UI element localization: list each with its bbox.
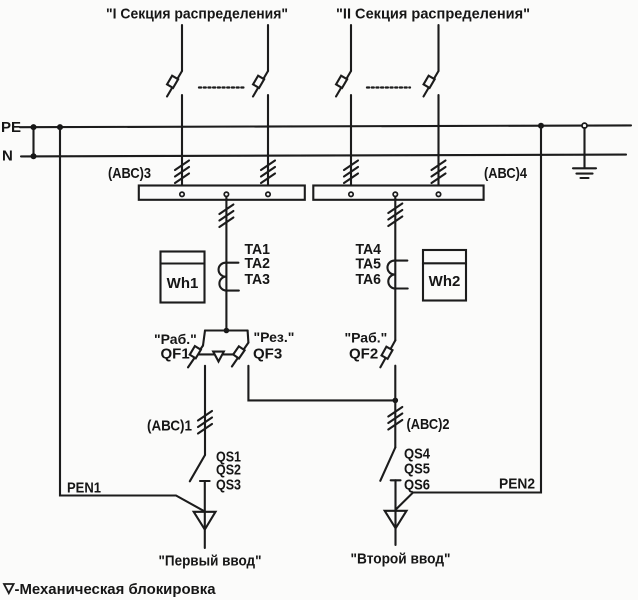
svg-text:TA5: TA5 (356, 256, 382, 273)
svg-text:PEN2: PEN2 (499, 476, 535, 493)
junction PEN2 on PE bus (538, 123, 544, 129)
terminal circle II-2 (393, 192, 397, 196)
svg-text:QF2: QF2 (349, 346, 378, 363)
meter Wh2 divider (423, 262, 466, 264)
svg-text:TA6: TA6 (356, 271, 382, 288)
QF1-QF3 top bar (205, 329, 248, 331)
QF2 lower wire (394, 366, 396, 448)
svg-text:"Рез.": "Рез." (254, 329, 295, 345)
earth wire (583, 128, 585, 168)
mechanical interlock triangle (213, 352, 224, 362)
input 1 arrow (194, 512, 216, 530)
input 2 arrow (385, 511, 407, 529)
feeder switch SW-C blade (336, 71, 351, 97)
input 2 wire (394, 480, 396, 545)
dotted continuation section I (199, 86, 245, 88)
footnote interlock triangle (4, 584, 14, 593)
meter Wh1 box (161, 252, 205, 303)
svg-text:(АВС)4: (АВС)4 (484, 165, 528, 182)
svg-text:TA3: TA3 (245, 271, 271, 288)
svg-text:"Раб.": "Раб." (345, 330, 388, 346)
breaker QF3 box (233, 346, 244, 358)
removable-link hatch B (261, 161, 275, 184)
PEN1 drop wire (60, 127, 205, 511)
disconnector QS1-3 contact bar (200, 480, 210, 482)
dotted continuation section II (367, 86, 410, 88)
right main wire upper (394, 197, 396, 340)
PE-N tie wire (32, 127, 34, 156)
feeder switch SW-A upper wire (181, 25, 183, 71)
terminal circle I-2 (224, 192, 228, 196)
N bus (21, 155, 626, 157)
PE bus (20, 125, 631, 127)
removable-link hatch D (432, 161, 446, 184)
disconnector QS4-6 blade (380, 448, 395, 481)
earth terminal circle on PE bus (582, 123, 587, 128)
junction PE-N tie top (31, 124, 37, 130)
feeder switch SW-C upper wire (350, 25, 352, 71)
breaker QF1 blade (188, 346, 203, 368)
removable-link hatch E (219, 205, 233, 228)
QF1 lower wire (204, 366, 206, 455)
svg-text:Wh2: Wh2 (429, 273, 461, 290)
current transformer TA4-TA6 (387, 261, 407, 289)
current transformer TA1-TA3 (219, 263, 239, 291)
svg-text:Wh1: Wh1 (167, 275, 199, 292)
terminal circle II-3 (436, 192, 440, 196)
feeder switch SW-C lower wire (350, 95, 352, 186)
svg-text:"II Секция распределения": "II Секция распределения" (336, 6, 530, 23)
svg-text:N: N (2, 148, 13, 165)
disconnector QS1-3 blade (190, 455, 205, 481)
ground (573, 168, 596, 178)
svg-text:PEN1: PEN1 (67, 480, 101, 497)
svg-text:QF3: QF3 (253, 346, 282, 363)
busbar section II (313, 186, 483, 200)
junction QF1-QF3 top (224, 328, 230, 334)
breaker QF1 box (190, 346, 201, 358)
PEN2 drop wire (396, 126, 541, 510)
svg-text:"Второй ввод": "Второй ввод" (351, 551, 451, 568)
feeder switch SW-A breaker box (167, 76, 178, 88)
feeder switch SW-D breaker box (424, 76, 435, 88)
QF1-QF3 bottom bar (199, 353, 234, 355)
feeder switch SW-B blade (253, 71, 268, 97)
breaker QF3 blade (232, 343, 249, 367)
removable-link hatch F (388, 204, 402, 227)
busbar section I (139, 186, 305, 200)
removable-link hatch A (175, 161, 189, 184)
terminal circle I-3 (266, 192, 270, 196)
input 1 wire (204, 481, 206, 548)
breaker QF2 blade (380, 340, 395, 367)
feeder switch SW-D blade (424, 71, 439, 97)
svg-text:"I Секция распределения": "I Секция распределения" (106, 6, 288, 23)
QF1-QF3 left edge (203, 331, 205, 346)
feeder switch SW-C breaker box (336, 76, 347, 88)
meter Wh2 box (423, 250, 466, 301)
terminal circle I-1 (180, 192, 184, 196)
meter Wh1 divider (161, 262, 205, 264)
QF1-QF3 right edge (247, 331, 250, 343)
terminal circle II-1 (349, 192, 353, 196)
removable-link hatch C (344, 161, 358, 184)
svg-text:"Первый ввод": "Первый ввод" (159, 553, 262, 570)
svg-text:(АВС)1: (АВС)1 (147, 418, 192, 435)
feeder switch SW-D lower wire (437, 95, 439, 186)
feeder switch SW-B lower wire (267, 95, 269, 186)
feeder switch SW-A blade (167, 71, 182, 97)
junction QF3 to main2 (393, 398, 399, 404)
junction PEN1 on PE bus (57, 124, 63, 130)
svg-text:TA2: TA2 (245, 255, 271, 272)
feeder switch SW-A lower wire (181, 95, 183, 186)
svg-text:QF1: QF1 (161, 346, 190, 363)
feeder switch SW-B upper wire (267, 25, 269, 71)
breaker QF2 box (382, 347, 393, 359)
junction PE-N tie bottom (31, 153, 37, 159)
QF3 lower wire (248, 366, 395, 401)
svg-text:QS5: QS5 (404, 461, 430, 478)
svg-text:PE: PE (1, 119, 21, 136)
left main wire upper (225, 197, 227, 330)
svg-text:QS6: QS6 (404, 477, 430, 494)
removable-link hatch H (388, 407, 402, 430)
svg-text:-Механическая блокировка: -Механическая блокировка (15, 581, 217, 598)
disconnector QS4-6 contact bar (391, 479, 401, 481)
feeder switch SW-D upper wire (437, 25, 439, 71)
svg-text:(АВС)2: (АВС)2 (407, 416, 450, 433)
svg-text:(АВС)3: (АВС)3 (108, 165, 151, 182)
feeder switch SW-B breaker box (253, 76, 264, 88)
removable-link hatch G (198, 411, 212, 434)
svg-text:QS3: QS3 (216, 477, 241, 494)
